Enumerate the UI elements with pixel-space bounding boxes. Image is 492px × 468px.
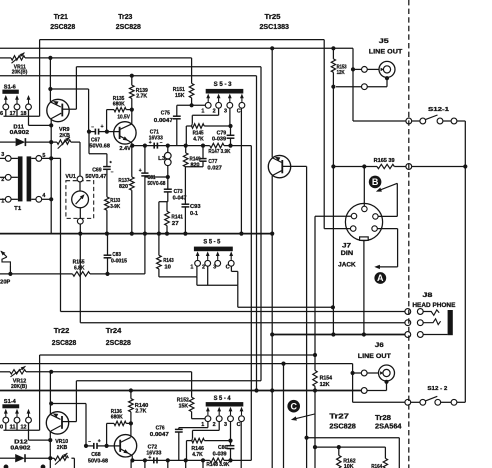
transformer T1 terminal stubs <box>0 157 5 159</box>
svg-text:R154: R154 <box>320 375 333 381</box>
wire x=315 down to Tr27 area <box>314 391 316 468</box>
wire DIN pin LR to A arrow <box>377 228 397 230</box>
wire S1-6 terminal 16 17 drops <box>5 110 7 117</box>
wire Tr21 collector drop <box>50 119 52 234</box>
wire rail x=283.5 from line-2 <box>283 364 285 468</box>
svg-text:20K(B): 20K(B) <box>11 384 27 390</box>
switch S12-1 <box>353 120 406 122</box>
wire right vertical S12 link <box>464 121 466 402</box>
variable resistor VR9 <box>57 140 71 144</box>
meter VU1 terminals <box>77 176 83 182</box>
wire S1-6 terminal 18 drop to collector stub <box>28 110 30 126</box>
wire base node to Tr23 bar <box>107 131 120 133</box>
svg-text:C: C <box>290 401 297 411</box>
wire J8 row2 feed line <box>80 322 405 324</box>
svg-text:S12-1: S12-1 <box>428 107 449 113</box>
wire C67 left node down to C69 <box>88 132 90 154</box>
svg-text:−: − <box>91 125 94 130</box>
wire R155 line y=274 <box>9 266 11 274</box>
node dots on bottom lines <box>49 370 53 374</box>
svg-text:HEAD PHONE: HEAD PHONE <box>412 302 456 309</box>
diode D11 <box>16 138 26 146</box>
svg-text:2SC828: 2SC828 <box>329 424 356 431</box>
node C balloon and arrow <box>287 400 300 413</box>
svg-text:820: 820 <box>191 163 200 169</box>
svg-text:680K: 680K <box>111 415 123 421</box>
svg-text:+: + <box>149 140 152 146</box>
svg-text:2KB: 2KB <box>57 445 68 451</box>
transformer T1 terminals <box>5 156 11 162</box>
wire left vertical rail x=40 lower <box>39 355 41 430</box>
wire main line bottom channel <box>132 459 209 461</box>
wire emitter tap to C67 <box>50 88 88 90</box>
variable resistor VR12 <box>10 370 26 374</box>
svg-text:20P: 20P <box>0 280 10 286</box>
wire line-4 top (base line Tr21) <box>76 66 261 68</box>
svg-text:2KB: 2KB <box>59 133 70 139</box>
svg-text:15K: 15K <box>179 403 189 409</box>
transistor Tr22 <box>46 412 68 434</box>
svg-text:S 5 - 5: S 5 - 5 <box>203 239 221 245</box>
wire C73 jog to bus <box>159 201 168 203</box>
bottom edge partial marks <box>4 465 9 468</box>
svg-text:4.7K: 4.7K <box>193 136 204 142</box>
svg-text:2SC828: 2SC828 <box>50 24 75 31</box>
svg-text:27: 27 <box>172 221 179 227</box>
switch S1-4 terminals 10 11 12 <box>3 417 9 423</box>
svg-text:C: C <box>226 265 230 271</box>
svg-text:3-9K: 3-9K <box>110 204 120 210</box>
wire nest vertical line5-bus <box>256 76 258 391</box>
connector J6 tip terminal <box>361 370 367 376</box>
svg-text:S 5 - 4: S 5 - 4 <box>214 396 232 402</box>
svg-text:+: + <box>139 168 142 174</box>
connector J6 sleeve terminal <box>361 388 367 394</box>
svg-text:4: 4 <box>42 193 45 199</box>
svg-text:15K: 15K <box>175 93 185 99</box>
svg-text:0A902: 0A902 <box>10 445 30 451</box>
svg-text:S12 - 2: S12 - 2 <box>427 386 447 392</box>
wire T1 secondary to strap <box>42 157 61 159</box>
wire S1-6 terminal link line <box>4 115 40 117</box>
svg-text:R164: R164 <box>371 464 382 468</box>
wire S5-5 lower link <box>196 277 198 285</box>
wire S5-5 terminal1 to R143 <box>159 276 197 278</box>
wire collector stub left bottom from terminal 12 <box>29 439 51 441</box>
svg-text:820: 820 <box>119 184 128 190</box>
connector J8 row1 terminals <box>405 309 411 315</box>
node A balloon <box>374 272 386 284</box>
wire line-1 bottom <box>40 354 315 356</box>
svg-text:+: + <box>148 455 151 461</box>
svg-text:C83: C83 <box>112 252 121 258</box>
svg-text:−: − <box>160 140 163 145</box>
wire R151 node to S5-3 terminal 1 and C75 <box>177 104 206 106</box>
terminal on dashed line R165 <box>406 164 412 170</box>
wire emitter tap to C68 <box>51 403 86 405</box>
transistor Tr21 <box>47 99 69 121</box>
svg-text:1: 1 <box>190 265 193 271</box>
svg-text:JACK: JACK <box>338 261 356 268</box>
svg-text:0: 0 <box>0 425 3 431</box>
svg-text:6: 6 <box>0 111 3 117</box>
svg-text:C80: C80 <box>218 445 228 451</box>
connector J5 tip terminal <box>362 67 368 73</box>
wire VU1 node down to J8 row2 feed <box>79 234 81 323</box>
svg-text:0-0015: 0-0015 <box>111 259 127 265</box>
switch S1-6 bar <box>2 90 18 94</box>
diode D12 <box>15 454 25 462</box>
svg-text:2SC828: 2SC828 <box>116 24 141 31</box>
svg-text:VU1: VU1 <box>65 174 76 180</box>
wire Tr24 collector lead <box>130 423 132 437</box>
switch S1-4 bar <box>2 404 19 408</box>
svg-text:C: C <box>237 109 241 115</box>
svg-text:6.8K: 6.8K <box>74 266 85 272</box>
svg-text:0-039: 0-039 <box>212 136 226 142</box>
svg-text:LINE OUT: LINE OUT <box>369 48 403 55</box>
svg-text:2SC1383: 2SC1383 <box>260 24 290 31</box>
connector J7 index notch <box>360 237 369 240</box>
svg-text:2: 2 <box>213 422 216 428</box>
svg-text:C77: C77 <box>208 159 217 165</box>
svg-text:3: 3 <box>213 265 216 271</box>
svg-text:50V0-68: 50V0-68 <box>147 181 165 187</box>
svg-text:12: 12 <box>21 425 27 431</box>
svg-text:Tr27: Tr27 <box>329 414 349 421</box>
wire DIN notch to ground bus <box>363 240 365 334</box>
meter VU1 dashed box <box>66 181 94 219</box>
wire nest vertical main-main <box>250 146 252 461</box>
wire collector stub left from terminal 18 <box>29 124 52 126</box>
svg-text:0.0047: 0.0047 <box>154 118 173 124</box>
wire VR10 to VU2 (cut) <box>73 458 75 468</box>
node D11/VR9 junction with T1 strap <box>49 140 53 144</box>
connector J7 DIN jack body <box>345 203 382 240</box>
connector J8 sleeve bar <box>448 310 453 335</box>
svg-text:2SC828: 2SC828 <box>106 340 131 347</box>
svg-text:C75: C75 <box>161 111 170 117</box>
transistor Tr23 <box>114 122 136 144</box>
svg-text:2.7K: 2.7K <box>135 409 146 415</box>
wire R146 left node to main <box>187 440 192 442</box>
transistor Tr25 <box>268 155 290 177</box>
switch S5-4 terminals 1 2 3 C <box>205 416 211 422</box>
svg-text:11: 11 <box>10 425 16 431</box>
svg-text:R147 3.9K: R147 3.9K <box>208 149 230 155</box>
switch S1-6 arrows <box>5 99 7 104</box>
wire S5-4 terminal3 riser <box>230 422 232 441</box>
wire line-3 top (VR11 line to R151) <box>0 57 11 59</box>
variable resistor VR10 <box>54 456 68 460</box>
svg-text:10K: 10K <box>344 464 354 468</box>
svg-text:−: − <box>88 439 91 444</box>
wire lower ground bus y=335 <box>272 334 405 336</box>
wire S5-4 terminal C riser <box>240 422 242 468</box>
svg-text:3: 3 <box>224 109 227 115</box>
svg-text:Tr25: Tr25 <box>265 14 281 21</box>
switch S5-5 arrows <box>197 254 199 260</box>
wire line-5 bottom thick bus to J6 <box>0 390 361 392</box>
svg-text:J5: J5 <box>379 38 389 45</box>
wire stubs below bottom main line <box>143 458 147 462</box>
connector J8 contacts <box>423 310 439 315</box>
svg-text:18: 18 <box>21 111 27 117</box>
wire J5 sleeve to ground line <box>385 76 389 80</box>
wire Tr22 base riser <box>75 381 77 422</box>
switch S1-4 arrows <box>5 412 7 417</box>
svg-text:0.0047: 0.0047 <box>150 432 169 438</box>
svg-text:Tr24: Tr24 <box>106 328 122 335</box>
svg-text:T1: T1 <box>14 206 22 212</box>
wire R152 node to S5-4 terminal 1 <box>192 418 205 420</box>
svg-text:0A902: 0A902 <box>10 130 30 136</box>
wire line-2 top (to J5/S12-1) <box>0 47 353 49</box>
svg-text:10: 10 <box>164 264 171 270</box>
svg-text:J8: J8 <box>422 292 433 299</box>
svg-text:C76: C76 <box>156 425 165 431</box>
wire D12/VR10 line <box>0 457 15 459</box>
wire S5-3 terminal C riser to ground bus <box>240 108 242 233</box>
variable resistor VR11 <box>11 56 25 60</box>
svg-text:50V0-68: 50V0-68 <box>88 459 108 465</box>
wire S5-5 terminal2 drop <box>207 266 209 285</box>
wire DIN pin UR to B arrow <box>378 215 397 217</box>
node Tr23 emitter on main line <box>130 144 134 148</box>
transistor Tr24 <box>114 435 136 457</box>
svg-text:1: 1 <box>201 422 204 428</box>
wire top channel ground bus <box>0 233 272 235</box>
wire Tr22 emitter riser <box>49 372 51 414</box>
wire strap tap to J8 row1 feed <box>60 158 62 311</box>
wire line-4 bottom (base line Tr22) <box>76 380 261 382</box>
svg-text:3: 3 <box>224 422 227 428</box>
wire R153 node down to ground bus <box>332 87 334 335</box>
svg-text:R143: R143 <box>163 258 174 264</box>
connector J8 row2 terminals <box>405 320 411 326</box>
wire S5-5 C to ground rail <box>237 285 239 307</box>
svg-text:Tr22: Tr22 <box>54 328 70 335</box>
svg-text:2: 2 <box>202 265 205 271</box>
wire S5-4 terminal2 link to R146 node <box>218 422 220 431</box>
wire Tr21 base riser <box>75 67 77 110</box>
svg-text:S 5 - 3: S 5 - 3 <box>214 82 233 88</box>
wire S1-4 terminal 10 11 drops <box>5 423 7 430</box>
svg-text:Tr21: Tr21 <box>54 14 68 21</box>
svg-text:B: B <box>372 177 379 187</box>
wire nest vertical base-base <box>260 67 262 381</box>
switch S5-3 arrows <box>207 97 209 102</box>
wire D11/VR9 line y=142 <box>0 141 16 143</box>
svg-text:0-039: 0-039 <box>213 451 227 457</box>
resistor R162 10K <box>337 445 341 449</box>
connector J7 pins <box>362 206 368 212</box>
wire S5-5 terminal C hook <box>230 266 232 271</box>
wire DIN pin UL feed <box>315 215 351 217</box>
svg-text:12K: 12K <box>320 382 330 388</box>
wire J8 row1 feed line <box>61 311 405 313</box>
wire Tr23 collector lead <box>131 110 133 124</box>
svg-text:0-047: 0-047 <box>173 195 187 201</box>
wire base node to Tr24 bar <box>107 445 121 447</box>
wire line-3 bottom (VR12 line to R152) <box>0 371 10 373</box>
wire Tr27 collector line <box>305 436 309 440</box>
svg-text:R148 3.9K: R148 3.9K <box>206 462 229 468</box>
svg-text:R141: R141 <box>171 214 183 220</box>
switch S5-4 arrows <box>207 410 209 415</box>
svg-text:20K(B): 20K(B) <box>12 69 28 75</box>
svg-text:−: − <box>111 169 114 174</box>
trimmer 20P arrow <box>1 251 7 257</box>
svg-text:Tr28: Tr28 <box>375 415 391 422</box>
node Tr21 emitter tap y=89 <box>48 87 52 91</box>
meter VU1 body <box>72 191 89 208</box>
connector J8 row3 terminals <box>405 332 411 338</box>
connector J6 jack <box>379 365 395 381</box>
svg-text:LINE OUT: LINE OUT <box>358 353 391 360</box>
svg-text:2SC828: 2SC828 <box>52 340 77 347</box>
svg-text:J7: J7 <box>342 243 352 250</box>
wire R136 left riser <box>106 423 108 446</box>
wire DIN top pin riser <box>363 167 365 207</box>
wire ground rail x=272 <box>271 48 273 157</box>
wire R149/C77 bottom link <box>186 166 203 168</box>
node B balloon <box>369 176 382 189</box>
svg-text:C72: C72 <box>148 444 158 450</box>
svg-text:C93: C93 <box>190 204 201 210</box>
node D12 line junction <box>48 456 52 460</box>
svg-text:DIN: DIN <box>341 250 354 257</box>
wire line-5 top (R139 feed) <box>0 75 257 77</box>
wire main line top channel <box>132 145 210 147</box>
wire R135 left riser to base node <box>106 110 108 132</box>
svg-text:C: C <box>237 422 241 428</box>
wire line-2 bottom corner to J6 <box>352 364 354 403</box>
connector J5 sleeve terminal <box>362 84 368 90</box>
wire Tr21 emitter to line-3 <box>49 58 51 102</box>
switch S12-2 <box>353 401 405 403</box>
svg-text:2: 2 <box>213 109 216 115</box>
switch S1-6 terminals 16 17 18 <box>3 104 9 110</box>
svg-text:A: A <box>377 273 384 283</box>
svg-text:R165 39: R165 39 <box>374 158 395 164</box>
wire Tr25 base riser long <box>306 166 308 437</box>
svg-text:C68: C68 <box>91 452 101 458</box>
wire S5-3 terminal2 link to R145 node <box>218 108 220 115</box>
connector J5 jack <box>379 61 395 77</box>
svg-text:2SA564: 2SA564 <box>375 424 402 431</box>
switch S5-5 terminals 1 2 3 C <box>195 260 201 266</box>
svg-text:680K: 680K <box>113 101 125 107</box>
wire S1-4 terminal 12 drop to collector stub <box>28 423 30 440</box>
wire line-1 top (B+ feed) <box>40 39 325 41</box>
svg-text:+: + <box>101 124 104 130</box>
wire S5-3 terminal3 riser <box>229 108 231 126</box>
wire R145 left node to main line <box>186 125 191 127</box>
wire Tr22 collector drop <box>49 431 51 468</box>
wire left vertical rail x=40 upper <box>39 40 41 117</box>
switch S5-3 bar <box>206 89 244 94</box>
svg-text:17: 17 <box>10 111 16 117</box>
wire Tr27 emitter line <box>315 446 385 448</box>
svg-text:4.7K: 4.7K <box>192 452 203 458</box>
svg-text:2.4V: 2.4V <box>119 146 131 152</box>
svg-text:10.5V: 10.5V <box>117 115 130 121</box>
switch S5-5 bar <box>194 247 233 252</box>
transformer T1 windings <box>18 156 23 201</box>
svg-text:J6: J6 <box>375 342 384 349</box>
wire VU1 bottom to ground bus <box>79 224 81 234</box>
svg-text:3: 3 <box>1 152 4 158</box>
svg-text:0-1: 0-1 <box>190 211 198 217</box>
svg-text:1: 1 <box>201 109 204 115</box>
svg-text:C73: C73 <box>174 189 183 195</box>
wire dashed boundary line <box>408 0 410 468</box>
switch S5-4 bar <box>206 402 244 406</box>
svg-text:Tr23: Tr23 <box>118 14 132 21</box>
wire C81 to L3 bottom link <box>145 176 168 178</box>
svg-text:2.7K: 2.7K <box>136 94 147 100</box>
svg-text:S1-6: S1-6 <box>4 84 17 90</box>
wire line-2 corner to J5 <box>352 48 354 121</box>
svg-text:50V0.68: 50V0.68 <box>89 143 110 149</box>
svg-text:50V0.47: 50V0.47 <box>85 174 106 180</box>
wire line-2 bottom (to J6/S12-2) <box>0 363 353 365</box>
wire J6 sleeve to bus <box>384 380 388 384</box>
svg-text:C69: C69 <box>92 168 102 174</box>
wire VR9 to VU1 meter <box>79 142 81 176</box>
wire S1-4 terminal link line <box>4 429 40 431</box>
svg-text:0.027: 0.027 <box>207 166 222 172</box>
switch S5-3 terminals 1 2 3 C <box>205 102 211 108</box>
svg-text:12K: 12K <box>337 70 345 76</box>
svg-text:+: + <box>98 439 101 445</box>
wire DIN pin LL feed from line-1 <box>323 40 325 229</box>
